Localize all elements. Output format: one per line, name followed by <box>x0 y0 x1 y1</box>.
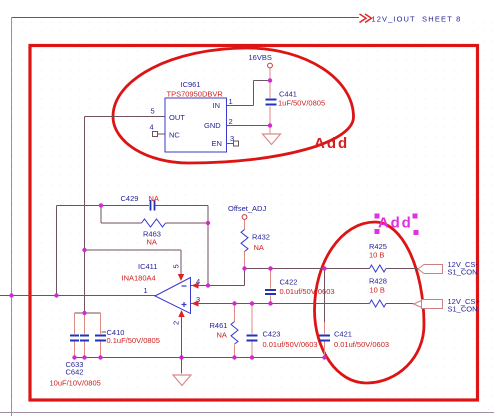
junction dot R461 top <box>232 301 236 305</box>
capacitor C410 <box>95 328 160 345</box>
svg-text:NA: NA <box>149 194 159 203</box>
pin arrow 5 (down) <box>178 274 184 281</box>
op-amp IC411 <box>155 278 191 314</box>
EN pin no-connect square <box>227 141 239 146</box>
svg-text:OUT: OUT <box>169 113 185 122</box>
wire supply branch to opamp pin 5 <box>85 250 182 274</box>
wire opamp pin 2 to ground <box>181 317 183 374</box>
wire GND pin of IC961 <box>227 125 271 127</box>
svg-text:C422: C422 <box>280 278 298 287</box>
wire 16VBS vertical through C441 <box>269 68 271 134</box>
junction dot C421 top <box>322 266 326 270</box>
svg-text:NC: NC <box>169 131 180 140</box>
svg-text:NA: NA <box>147 238 157 247</box>
wire decoupling cap bus <box>75 312 101 314</box>
off-page connector 12V_CS+ <box>414 297 481 314</box>
annotation ellipse around R425/R428/C421 <box>315 222 425 383</box>
junction dot GND pin <box>268 123 272 127</box>
wire opamp pin 3 net <box>191 303 414 305</box>
svg-text:SHEET 8: SHEET 8 <box>422 15 462 24</box>
resistor R463 <box>142 219 166 247</box>
svg-text:10uF/10V/0805: 10uF/10V/0805 <box>50 379 101 388</box>
off-page arrow 12V_IOUT <box>360 14 372 23</box>
IC961 regulator TPS70950DBVR <box>165 98 227 152</box>
junction dot output at page border <box>9 293 13 297</box>
resistor R425 <box>369 242 387 272</box>
junction dot C422 top <box>268 266 272 270</box>
svg-text:2: 2 <box>172 321 181 325</box>
svg-text:R461: R461 <box>210 321 228 330</box>
junction dots on ground bus <box>72 355 326 359</box>
svg-text:C429: C429 <box>121 194 139 203</box>
wire feedback from output up to C429/R463 <box>57 206 209 296</box>
off-page connector 12V_CS- <box>418 260 478 277</box>
wire ground bus <box>75 357 325 359</box>
NC pin no-connect square <box>153 132 166 137</box>
junction dot 16VBS/IN <box>268 78 272 82</box>
wire opamp output to left edge <box>0 295 156 297</box>
svg-text:4: 4 <box>150 123 154 132</box>
junction dot feedback to pin4 <box>206 283 210 287</box>
junction dot R432 bottom <box>242 266 246 270</box>
svg-text:0.1uF/50V/0805: 0.1uF/50V/0805 <box>107 336 160 345</box>
svg-text:5: 5 <box>172 264 181 268</box>
svg-text:2: 2 <box>229 117 233 126</box>
capacitor C429 <box>121 194 159 211</box>
pin arrow 2 (up) <box>178 310 184 317</box>
wire IN pin of IC961 to 16VBS <box>227 81 271 106</box>
svg-text:NA: NA <box>217 331 227 340</box>
svg-text:C423: C423 <box>263 330 281 339</box>
ground symbol below opamp <box>173 375 191 386</box>
svg-text:0.01uf/50V/0603: 0.01uf/50V/0603 <box>334 340 389 349</box>
svg-text:S1_CON: S1_CON <box>448 305 478 314</box>
svg-text:TPS70950DBVR: TPS70950DBVR <box>167 90 224 99</box>
svg-text:5: 5 <box>151 107 155 116</box>
wire 12V_IOUT to off-page <box>12 17 360 19</box>
resistor R432 <box>241 220 270 269</box>
capacitor C423 <box>247 304 318 358</box>
svg-text:R428: R428 <box>369 277 387 286</box>
svg-text:IN: IN <box>213 101 221 110</box>
svg-text:12V_IOUT: 12V_IOUT <box>372 15 416 24</box>
junction dot C422 bottom <box>268 301 272 305</box>
svg-text:IC411: IC411 <box>138 262 157 271</box>
resistor R461 <box>210 304 239 358</box>
junction dot R463 right node <box>206 221 210 225</box>
capacitor C422 <box>265 269 335 304</box>
svg-text:C421: C421 <box>334 330 352 339</box>
svg-text:0.01uf/50V/0603: 0.01uf/50V/0603 <box>280 287 335 296</box>
junction dot supply to pin5 <box>82 248 86 252</box>
annotation text Add (magenta) with selection handles <box>375 214 419 236</box>
svg-text:GND: GND <box>204 121 221 130</box>
svg-text:C441: C441 <box>279 90 297 99</box>
svg-text:EN: EN <box>212 139 222 148</box>
junction dot cap bus feed <box>82 311 86 315</box>
junction dot output/feedback <box>54 293 58 297</box>
wire OUT pin of IC961 to opamp supply rail <box>85 117 166 314</box>
svg-text:Add: Add <box>314 135 349 152</box>
capacitor C633 <box>70 336 79 341</box>
svg-text:INA180A4: INA180A4 <box>122 274 156 283</box>
svg-text:S1_CON: S1_CON <box>448 268 478 277</box>
capacitor C441 <box>266 90 326 108</box>
capacitor C421 <box>319 269 389 358</box>
pin arrow 4 (left) <box>192 282 199 288</box>
net 16VBS terminal circle <box>268 63 273 68</box>
svg-text:10 B: 10 B <box>369 251 384 260</box>
svg-text:16VBS: 16VBS <box>249 53 272 62</box>
wire opamp pin 4 net <box>191 269 245 286</box>
junction dot C423 top <box>250 301 254 305</box>
resistor R428 <box>369 277 387 308</box>
svg-text:R432: R432 <box>252 233 270 242</box>
svg-text:Offset_ADJ: Offset_ADJ <box>228 204 266 213</box>
svg-text:1: 1 <box>229 97 233 106</box>
svg-text:NA: NA <box>254 243 264 252</box>
svg-text:1uF/50V/0805: 1uF/50V/0805 <box>278 99 325 108</box>
capacitor C642 <box>80 336 89 341</box>
annotation ellipse around IC961 <box>113 48 354 163</box>
pin arrow 3 (left) <box>192 300 199 306</box>
net Offset_ADJ terminal circle <box>242 215 247 220</box>
annotation rectangle (red) <box>30 46 478 401</box>
svg-text:Add: Add <box>378 215 413 232</box>
svg-text:IC961: IC961 <box>181 80 201 89</box>
svg-text:10 B: 10 B <box>370 286 385 295</box>
svg-text:C642: C642 <box>66 368 84 377</box>
junction dot C429 left node <box>99 203 103 207</box>
svg-text:0.01uf/50V/0603: 0.01uf/50V/0603 <box>263 340 318 349</box>
svg-text:1: 1 <box>144 286 148 295</box>
ground symbol below C441 <box>263 134 281 145</box>
wire pin4 net horizontal to R425 <box>244 268 418 270</box>
